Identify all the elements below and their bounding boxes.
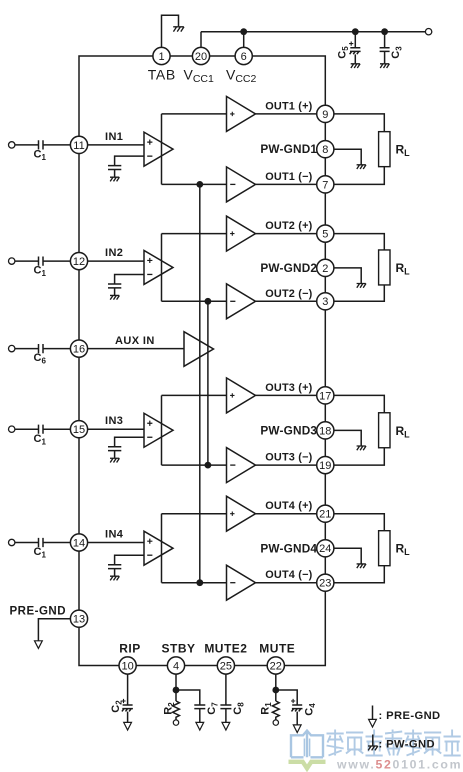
wire IN4 to amp (ch4): [88, 542, 144, 544]
svg-text:2: 2: [322, 263, 328, 275]
resistor R2: [173, 701, 180, 720]
svg-text:IN3: IN3: [105, 415, 123, 427]
capacitor feedback (ch3): [108, 447, 121, 458]
IC outline box: [79, 56, 325, 666]
capacitor feedback (ch2): [108, 284, 121, 295]
svg-text:MUTE2: MUTE2: [204, 642, 247, 656]
node bus junction (ch1): [196, 181, 203, 188]
svg-text:PW-GND2: PW-GND2: [260, 261, 317, 275]
svg-text:6: 6: [241, 51, 247, 63]
svg-text:18: 18: [319, 425, 331, 437]
pin 10: [119, 657, 136, 674]
wire branch vertical (ch3): [161, 395, 163, 465]
op-amp input stage (ch2): [144, 250, 173, 284]
pin 18: [317, 422, 334, 439]
wire C1 to pin (ch1): [43, 144, 70, 146]
ground PRE-GND arrow (C4): [293, 725, 301, 733]
watermark logo book icon: [291, 731, 323, 758]
svg-text:8: 8: [322, 144, 328, 156]
svg-text:1: 1: [158, 51, 164, 63]
wire to inverting amp (ch3): [162, 464, 227, 466]
wire input to C1 (ch3): [15, 428, 38, 430]
wire pin4 down: [175, 674, 177, 701]
wire PW-GND3 to ground: [334, 430, 361, 445]
pin 4: [167, 657, 184, 674]
wire C1 to pin (ch4): [43, 542, 70, 544]
legend PW-GND ground symbol: [372, 735, 374, 746]
pin 8: [317, 141, 334, 158]
svg-text:www.520101.com: www.520101.com: [336, 758, 462, 772]
svg-text:PRE-GND: PRE-GND: [10, 606, 67, 618]
pin 5: [317, 225, 334, 242]
capacitor feedback (ch4): [108, 565, 121, 576]
svg-text:OUT2 (+): OUT2 (+): [265, 220, 312, 232]
wire branch vertical (ch1): [161, 114, 163, 184]
resistor RL (ch2): [379, 250, 390, 285]
svg-text:TAB: TAB: [148, 67, 176, 83]
terminal IN3 input: [9, 426, 15, 432]
svg-text:PW-GND1: PW-GND1: [260, 142, 317, 156]
pin 24: [317, 540, 334, 557]
ground PW-GND (ch3 input): [110, 458, 119, 462]
svg-text:14: 14: [73, 537, 85, 549]
wire to inverting amp (ch4): [162, 582, 227, 584]
svg-text:24: 24: [319, 543, 331, 555]
ground PW-GND (ch2 input): [110, 295, 119, 299]
terminal VCC supply: [425, 29, 431, 35]
wire RL loop (ch1): [334, 114, 384, 184]
svg-text:IN1: IN1: [105, 131, 123, 143]
pin 17: [317, 387, 334, 404]
capacitor C2: [122, 705, 133, 722]
capacitor C7: [194, 705, 205, 722]
wire IN2 to amp (ch2): [88, 260, 144, 262]
wire inverting input (ch2): [115, 274, 144, 283]
svg-text:IN2: IN2: [105, 247, 123, 259]
node MUTE junction: [272, 687, 279, 694]
op-amp OUT2 minus: [227, 284, 256, 319]
wire AUX IN to amp: [88, 348, 184, 350]
ground PW-GND (C5): [351, 64, 360, 68]
svg-text:5: 5: [322, 229, 328, 241]
wire to non-inverting amp (ch4): [162, 513, 227, 515]
svg-text:12: 12: [73, 256, 85, 268]
svg-text:16: 16: [73, 344, 85, 356]
resistor RL (ch1): [379, 132, 390, 167]
wire C1 to pin (ch2): [43, 260, 70, 262]
wire to inverting amp (ch2): [162, 300, 227, 302]
capacitor feedback (ch1): [108, 166, 121, 177]
capacitor C1 (ch4): [39, 538, 44, 547]
capacitor C1 (ch3): [39, 425, 44, 434]
node bus junction (ch3): [205, 462, 212, 469]
wire VCC rail: [201, 31, 425, 33]
op-amp input stage (ch1): [144, 132, 173, 166]
svg-text:: PRE-GND: : PRE-GND: [379, 710, 441, 722]
capacitor C8: [220, 705, 231, 722]
svg-text:OUT2 (−): OUT2 (−): [265, 288, 312, 300]
svg-text:RIP: RIP: [119, 642, 141, 656]
op-amp AUX buffer: [184, 332, 214, 367]
wire pin22 down: [275, 674, 277, 701]
ground PW-GND1 symbol: [357, 165, 366, 169]
wire input to C1 (ch2): [15, 260, 38, 262]
ground PW-GND4 symbol: [357, 564, 366, 568]
wire VCC2 riser: [243, 32, 245, 48]
ground PW-GND (C3): [380, 64, 389, 68]
pin 7: [317, 176, 334, 193]
resistor RL (ch3): [379, 413, 390, 448]
wire PW-GND4 to ground: [334, 548, 361, 563]
ground PRE-GND arrow (C8): [222, 722, 230, 730]
wire aux input to C6: [15, 348, 38, 350]
wire TAB to ground: [162, 15, 179, 47]
terminal IN4 input: [9, 539, 15, 545]
wire VCC1 riser: [200, 32, 202, 48]
ground PW-GND (TAB): [173, 27, 184, 32]
pin 14: [70, 534, 87, 551]
terminal IN1 input: [9, 142, 15, 148]
legend PRE-GND arrow symbol: [372, 706, 374, 720]
wire inverting input (ch3): [115, 437, 144, 446]
node C5 junction: [352, 28, 359, 35]
svg-text:AUX IN: AUX IN: [115, 335, 155, 347]
svg-text:10: 10: [121, 660, 133, 672]
wire C1 to pin (ch3): [43, 428, 70, 430]
resistor R1: [272, 701, 279, 720]
wire OUT1(+) to pin: [256, 113, 317, 115]
node bus junction (ch2): [205, 298, 212, 305]
ground PW-GND2 symbol: [357, 284, 366, 288]
wire IN3 to amp (ch3): [88, 428, 144, 430]
svg-text:21: 21: [319, 509, 331, 521]
op-amp input stage (ch3): [144, 413, 173, 447]
node C3 junction: [381, 28, 388, 35]
wire branch vertical (ch4): [161, 514, 163, 583]
pin 1: [153, 47, 170, 64]
wire bus B (ch2 to ch3 feedback): [207, 301, 209, 465]
pin 19: [317, 457, 334, 474]
pin 11: [70, 136, 87, 153]
pin 20: [192, 47, 209, 64]
svg-text:20: 20: [195, 51, 207, 63]
op-amp OUT3 plus: [227, 378, 256, 413]
svg-text:13: 13: [73, 614, 85, 626]
pin 23: [317, 574, 334, 591]
capacitor C4: [292, 705, 303, 725]
wire RL loop (ch2): [334, 234, 384, 302]
svg-text:: PW-GND: : PW-GND: [379, 739, 435, 751]
svg-text:23: 23: [319, 578, 331, 590]
op-amp input stage (ch4): [144, 531, 173, 565]
svg-text:22: 22: [270, 660, 282, 672]
pin 9: [317, 105, 334, 122]
svg-text:IN4: IN4: [105, 529, 124, 541]
svg-text:3: 3: [322, 296, 328, 308]
wire IN1 to amp (ch1): [88, 144, 144, 146]
wire OUT1(-) to pin: [256, 183, 317, 185]
ground PRE-GND arrow (C2): [124, 722, 132, 730]
op-amp OUT4 minus: [227, 565, 256, 600]
node STBY junction: [173, 687, 180, 694]
svg-text:25: 25: [220, 660, 232, 672]
node VCC2 junction: [240, 28, 247, 35]
ground PW-GND3 symbol: [357, 446, 366, 450]
svg-text:11: 11: [73, 140, 84, 152]
svg-text:OUT1 (+): OUT1 (+): [265, 100, 312, 112]
wire PW-GND1 to ground: [334, 149, 361, 164]
pin 3: [317, 293, 334, 310]
terminal IN2 input: [9, 258, 15, 264]
ground PW-GND (ch4 input): [110, 576, 119, 580]
capacitor C3: [380, 32, 390, 64]
wire PW-GND2 to ground: [334, 268, 361, 283]
capacitor C6: [39, 344, 44, 353]
op-amp OUT1 plus: [227, 96, 256, 131]
capacitor C5: [350, 32, 361, 64]
svg-text:OUT3 (−): OUT3 (−): [265, 452, 312, 464]
wire STBY branch to C7: [176, 690, 200, 705]
svg-text:OUT4 (−): OUT4 (−): [265, 569, 312, 581]
wire inverting input (ch1): [115, 156, 144, 165]
wire to inverting amp (ch1): [162, 183, 227, 185]
svg-text:OUT4 (+): OUT4 (+): [265, 500, 312, 512]
op-amp OUT3 minus: [227, 448, 256, 483]
pin 15: [70, 421, 87, 438]
wire to non-inverting amp (ch1): [162, 113, 227, 115]
watermark text stylised glyphs: [327, 730, 461, 756]
wire RL loop (ch4): [334, 514, 384, 583]
capacitor C1 (ch1): [39, 140, 44, 149]
terminal AUX input: [9, 345, 15, 351]
svg-text:7: 7: [322, 179, 328, 191]
resistor RL (ch4): [379, 531, 390, 566]
svg-text:PW-GND4: PW-GND4: [260, 541, 317, 555]
ground PRE-GND arrow (pin13): [35, 641, 43, 649]
pin 21: [317, 505, 334, 522]
wire OUT2(+) to pin: [256, 233, 317, 235]
pin 22: [267, 657, 284, 674]
wire to non-inverting amp (ch2): [162, 233, 227, 235]
wire inverting input (ch4): [115, 555, 144, 564]
pin 12: [70, 253, 87, 270]
wire OUT3(-) to pin: [256, 464, 317, 466]
wire OUT3(+) to pin: [256, 394, 317, 396]
wire bus A (ch1 to ch4 feedback): [199, 184, 201, 582]
ground PW-GND (ch1 input): [110, 177, 119, 181]
wire pin25 to C8: [225, 674, 227, 705]
node bus junction (ch4): [196, 579, 203, 586]
terminal R2: [173, 720, 178, 725]
pin 2: [317, 259, 334, 276]
wire branch vertical (ch2): [161, 234, 163, 302]
svg-text:OUT3 (+): OUT3 (+): [265, 382, 312, 394]
terminal R1: [273, 720, 278, 725]
pin 6: [235, 47, 252, 64]
pin 25: [217, 657, 234, 674]
wire to non-inverting amp (ch3): [162, 394, 227, 396]
svg-text:OUT1 (−): OUT1 (−): [265, 171, 312, 183]
capacitor C1 (ch2): [39, 257, 44, 266]
op-amp OUT4 plus: [227, 496, 256, 531]
svg-text:PW-GND3: PW-GND3: [260, 423, 317, 437]
wire input to C1 (ch1): [15, 144, 38, 146]
svg-text:MUTE: MUTE: [259, 642, 295, 656]
op-amp OUT1 minus: [227, 167, 256, 202]
wire MUTE branch to C4: [276, 690, 297, 705]
wire input to C1 (ch4): [15, 542, 38, 544]
wire pin10 to C2: [127, 674, 129, 705]
pin 16: [70, 340, 87, 357]
svg-text:9: 9: [322, 109, 328, 121]
wire OUT4(-) to pin: [256, 582, 317, 584]
ground PRE-GND arrow (C7): [196, 722, 204, 730]
op-amp OUT2 plus: [227, 216, 256, 251]
svg-text:17: 17: [319, 390, 331, 402]
wire pin13 to PRE-GND arrow: [38, 619, 70, 641]
svg-text:19: 19: [319, 460, 331, 472]
wire OUT4(+) to pin: [256, 513, 317, 515]
svg-text:STBY: STBY: [161, 642, 195, 656]
wire RL loop (ch3): [334, 395, 384, 465]
pin 13: [70, 610, 87, 627]
wire OUT2(-) to pin: [256, 300, 317, 302]
svg-text:4: 4: [173, 660, 179, 672]
svg-text:15: 15: [73, 424, 85, 436]
wire C6 to pin 16: [43, 348, 70, 350]
